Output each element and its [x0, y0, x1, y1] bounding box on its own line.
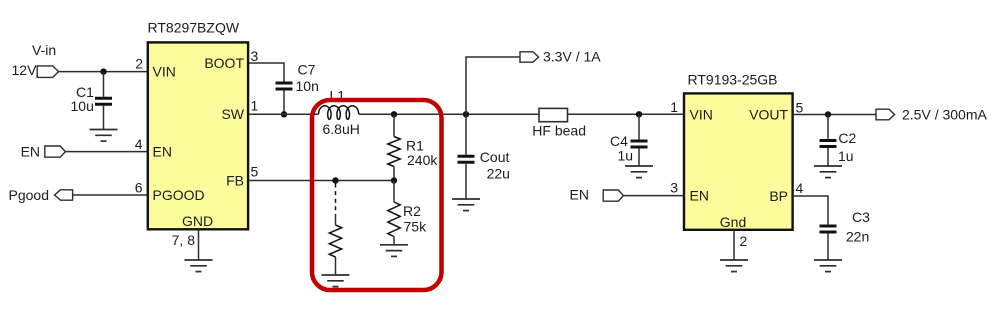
capacitor C2 1u	[820, 130, 857, 164]
svg-text:RT8297BZQW: RT8297BZQW	[148, 20, 240, 36]
wire BOOT to C7	[249, 63, 284, 82]
wire U2 Gnd to ground	[733, 230, 735, 260]
svg-text:4: 4	[135, 136, 143, 152]
junction node R1/R2	[391, 177, 397, 183]
junction node Cout tap	[463, 111, 469, 117]
svg-text:240k: 240k	[407, 152, 438, 168]
ground below C4	[625, 166, 653, 178]
wire up to 3.3V port	[466, 57, 520, 114]
wire Cout to ground	[465, 164, 467, 199]
svg-text:Gnd: Gnd	[720, 214, 746, 230]
svg-text:EN: EN	[690, 187, 709, 203]
U2 pin 1 VIN	[670, 99, 713, 122]
port 12V input connector	[12, 62, 59, 78]
red annotation oval around feedback network	[312, 100, 442, 290]
wire down to C1	[103, 72, 105, 97]
port 3.3V / 1A output	[520, 49, 601, 65]
wire C4 tap down	[638, 114, 640, 139]
U1 pin 2 VIN	[135, 56, 176, 80]
svg-text:3: 3	[251, 48, 259, 64]
ground below R2	[380, 245, 408, 257]
wire EN to U1	[65, 151, 148, 153]
svg-text:R2: R2	[403, 203, 421, 219]
svg-text:Pgood: Pgood	[9, 187, 49, 203]
svg-text:1: 1	[251, 98, 259, 114]
junction node C7/SW	[281, 111, 287, 117]
svg-text:10n: 10n	[296, 78, 319, 94]
wire HF bead to U2 VIN	[568, 113, 686, 115]
wire optional resistor to ground	[335, 257, 337, 275]
port Pgood output (left pointing)	[9, 187, 73, 203]
svg-text:2.5V / 300mA: 2.5V / 300mA	[902, 107, 987, 123]
svg-text:1u: 1u	[618, 148, 634, 164]
U2 pin 4 BP	[769, 180, 803, 204]
ground below U1	[185, 260, 213, 272]
svg-text:EN: EN	[570, 187, 589, 203]
resistor R2 75k	[388, 181, 427, 245]
ground below C2	[814, 166, 842, 178]
svg-text:C2: C2	[838, 130, 856, 146]
svg-text:PGOOD: PGOOD	[153, 187, 205, 203]
ground below C1	[90, 130, 118, 142]
wire U1 GND to ground	[198, 230, 200, 261]
U2 pin 3 EN	[670, 180, 709, 204]
resistor R1 240k	[388, 114, 439, 180]
capacitor C1 10u	[71, 84, 113, 114]
svg-text:4: 4	[796, 180, 804, 196]
IC U1 RT8297BZQW body	[148, 20, 249, 230]
svg-text:3.3V / 1A: 3.3V / 1A	[543, 49, 601, 65]
capacitor C3 22n	[820, 209, 871, 244]
svg-text:SW: SW	[221, 106, 244, 122]
svg-text:V-in: V-in	[32, 42, 56, 58]
capacitor C4 1u	[610, 133, 648, 164]
junction node FB / dashed resistor	[332, 177, 338, 183]
port EN input (right)	[570, 187, 624, 203]
wire C7 to SW rail	[283, 91, 285, 115]
wire C4 to ground	[638, 149, 640, 167]
svg-text:HF bead: HF bead	[532, 123, 586, 139]
svg-text:BP: BP	[769, 188, 788, 204]
ferrite bead FB1 HF bead	[532, 108, 586, 138]
ground below Cout	[452, 199, 480, 211]
ground below U2	[720, 260, 748, 272]
svg-text:22u: 22u	[487, 165, 510, 181]
svg-text:12V: 12V	[12, 62, 38, 78]
port EN input (left)	[21, 143, 66, 159]
junction node R1 top	[391, 111, 397, 117]
svg-text:75k: 75k	[404, 218, 428, 234]
wire U2 VOUT to port	[793, 114, 877, 116]
svg-text:EN: EN	[153, 143, 172, 159]
svg-text:3: 3	[670, 180, 678, 196]
junction node C2 tap	[825, 111, 831, 117]
capacitor Cout 22u	[458, 149, 510, 181]
svg-text:1: 1	[670, 99, 678, 115]
wire U2 BP to C3	[793, 196, 829, 225]
wire Cout tap down	[465, 114, 467, 155]
svg-text:VOUT: VOUT	[749, 106, 788, 122]
svg-text:FB: FB	[226, 172, 244, 188]
U1 pin 4 EN	[135, 136, 172, 159]
svg-text:10u: 10u	[71, 98, 94, 114]
svg-text:EN: EN	[21, 143, 40, 159]
wire L1 to HF bead	[359, 113, 539, 115]
wire FB net U1 to R1/R2 junction	[249, 180, 394, 182]
svg-text:VIN: VIN	[153, 63, 176, 79]
ground below optional resistor	[322, 275, 350, 287]
U1 pin 6 PGOOD	[135, 180, 205, 203]
svg-text:C7: C7	[298, 61, 316, 77]
svg-text:5: 5	[796, 100, 804, 116]
svg-text:7, 8: 7, 8	[172, 232, 196, 248]
capacitor C7 10n	[276, 61, 319, 94]
wire C2 to ground	[827, 148, 829, 166]
dashed wire from FB junction	[335, 184, 337, 215]
U1 pin 1 SW	[221, 98, 258, 123]
svg-text:GND: GND	[182, 213, 213, 229]
U2 pin 5 VOUT	[749, 100, 803, 123]
svg-text:C3: C3	[852, 209, 870, 225]
svg-text:5: 5	[251, 164, 259, 180]
svg-text:22n: 22n	[846, 228, 869, 244]
U1 pin 5 FB	[226, 164, 258, 189]
port 2.5V / 300mA output	[876, 107, 987, 123]
svg-text:6: 6	[135, 180, 143, 196]
svg-text:BOOT: BOOT	[204, 55, 244, 71]
U1 pin 3 BOOT	[204, 48, 258, 71]
junction node C4 tap	[636, 111, 642, 117]
wire C2 tap down	[827, 115, 829, 139]
wire to optional resistor	[335, 214, 337, 225]
ground below C3	[814, 260, 842, 272]
IC U2 RT9193-25GB body	[684, 72, 793, 230]
wire EN to U2	[623, 195, 685, 197]
optional resistor (unlabeled)	[329, 225, 341, 257]
wire SW to L1	[249, 113, 319, 115]
svg-text:6.8uH: 6.8uH	[323, 121, 360, 137]
wire C3 to ground	[827, 234, 829, 261]
U2 pin 2 Gnd	[720, 214, 748, 249]
svg-text:Cout: Cout	[480, 149, 510, 165]
svg-text:2: 2	[135, 56, 143, 72]
inductor L1 6.8uH	[319, 88, 360, 138]
svg-text:VIN: VIN	[690, 106, 713, 122]
wire C1 to ground	[103, 106, 105, 130]
svg-text:1u: 1u	[838, 148, 854, 164]
svg-text:2: 2	[740, 233, 748, 249]
svg-text:RT9193-25GB: RT9193-25GB	[688, 72, 778, 88]
junction node at C1 tap	[100, 68, 106, 74]
wire 12V to U1 VIN	[59, 71, 148, 73]
wire Pgood to U1	[73, 194, 148, 196]
U1 GND pins 7,8	[172, 213, 213, 248]
